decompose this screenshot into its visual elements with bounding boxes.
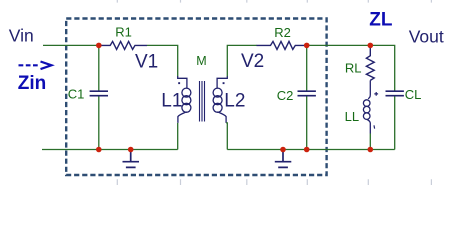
wire: R1 to L1 top [147, 45, 178, 76]
resistor RL [366, 45, 374, 80]
wire: C1 branch [98, 45, 100, 149]
wire: L2 top to top rail [227, 45, 256, 76]
phase dot L2 [223, 82, 225, 84]
Zin arrow [19, 62, 52, 70]
svg-text:ZL: ZL [369, 10, 393, 31]
LL polarity plus [374, 92, 378, 96]
svg-text:R1: R1 [115, 25, 132, 40]
svg-text:L2: L2 [224, 91, 245, 112]
node dot ground right [280, 147, 286, 153]
wire: C2 branch [306, 45, 308, 149]
node dot RL top [368, 43, 374, 49]
capacitor C1 [90, 91, 108, 96]
wire: top rail right to Vout corner [307, 45, 395, 90]
svg-text:Vin: Vin [9, 25, 34, 45]
svg-text:V2: V2 [241, 51, 264, 72]
node dot C2 bottom [304, 147, 310, 153]
dashed boundary box (two-port network outline) [66, 19, 326, 176]
wire: bottom rail right [227, 149, 394, 151]
inductor L1 (transformer primary) [178, 76, 191, 123]
node dot Vin/C1 top [96, 43, 102, 49]
inductor LL [363, 80, 370, 133]
ground left [123, 150, 140, 168]
svg-text:CL: CL [405, 87, 422, 102]
wire: bottom rail left [42, 149, 178, 151]
capacitor CL [386, 91, 404, 96]
wire: CL branch lower [394, 96, 396, 149]
transformer core [200, 81, 205, 122]
wire: L2 bottom to bottom rail [226, 123, 227, 150]
wire: L1 bottom to bottom rail [177, 123, 179, 150]
LL polarity minus tick [373, 125, 376, 128]
inductor L2 (transformer secondary) [213, 76, 227, 123]
node dot C1 bottom [96, 147, 102, 153]
svg-text:L1: L1 [161, 91, 182, 112]
node dot LL bottom [368, 147, 374, 153]
wire: top rail left from Vin to R1 [43, 44, 100, 46]
svg-text:M: M [196, 54, 206, 68]
svg-text:C2: C2 [277, 88, 294, 103]
phase dot L1 [178, 82, 180, 84]
resistor R1 [99, 41, 147, 49]
ground right [275, 150, 292, 168]
capacitor C2 [298, 91, 316, 96]
wire: LL bottom to bottom rail [369, 134, 371, 150]
svg-text:Zin: Zin [18, 73, 47, 94]
svg-text:Vout: Vout [409, 26, 444, 46]
node dot ground left [128, 147, 134, 153]
svg-text:V1: V1 [135, 52, 158, 73]
svg-text:RL: RL [345, 60, 362, 75]
svg-text:R2: R2 [274, 25, 291, 40]
node dot R2/C2 top [304, 43, 310, 49]
resistor R2 [257, 41, 307, 49]
svg-text:C1: C1 [68, 87, 85, 102]
svg-text:LL: LL [345, 109, 359, 124]
